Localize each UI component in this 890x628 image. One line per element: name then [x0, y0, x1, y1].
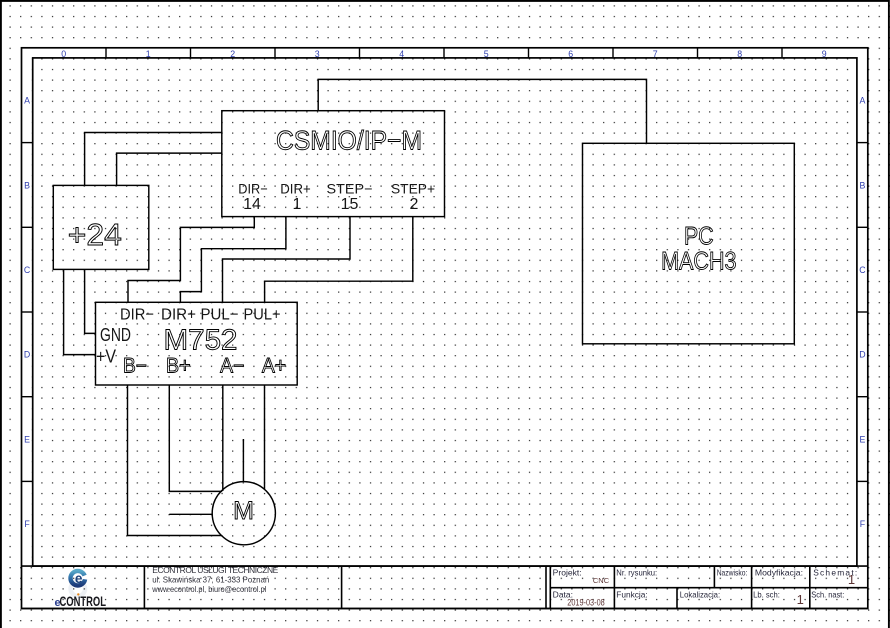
svg-text:M: M — [233, 497, 254, 525]
wire CSMIO left pin2 to +24 top — [117, 153, 222, 185]
svg-text:ul. Skawińska 37, 61-333 Pozna: ul. Skawińska 37, 61-333 Poznań — [152, 574, 269, 584]
svg-text:A: A — [859, 96, 865, 106]
wire M752 A+ to motor — [264, 385, 266, 489]
svg-text:Lb. sch:: Lb. sch: — [753, 590, 780, 600]
svg-text:D: D — [859, 350, 865, 360]
svg-text:ECONTROL USŁUGI TECHNICZNE: ECONTROL USŁUGI TECHNICZNE — [152, 565, 278, 575]
wire M752 A- to motor — [222, 385, 224, 491]
svg-text:PUL+: PUL+ — [244, 307, 281, 324]
wire +24 bottom to M752 GND — [85, 269, 96, 333]
svg-text:B: B — [24, 180, 30, 190]
svg-text:3: 3 — [315, 49, 320, 59]
svg-text:Projekt:: Projekt: — [553, 567, 582, 577]
ruler band mask — [20, 46, 867, 565]
svg-text:F: F — [860, 519, 866, 529]
svg-text:C: C — [859, 265, 866, 275]
svg-text:B+: B+ — [166, 355, 191, 378]
svg-text:M752: M752 — [164, 325, 238, 357]
svg-text:E: E — [859, 434, 865, 444]
wire M752 B- to motor — [128, 385, 222, 536]
wire STEP- pin15 to M752 PUL- — [223, 217, 351, 303]
ruler labels — [24, 49, 866, 529]
driver U2 M752 box — [96, 302, 298, 385]
svg-text:6: 6 — [568, 49, 573, 59]
wire DIR+ pin1 to M752 DIR+ — [180, 217, 286, 303]
svg-text:Sch. nast:: Sch. nast: — [811, 590, 844, 600]
wire STEP+ pin2 to M752 PUL+ — [265, 217, 413, 303]
svg-text:Nr. rysunku:: Nr. rysunku: — [616, 567, 657, 577]
svg-text:1: 1 — [146, 49, 151, 59]
svg-text:CSMIO/IP−M: CSMIO/IP−M — [276, 126, 422, 156]
motor left terminal stub — [169, 513, 212, 515]
svg-text:2: 2 — [230, 49, 235, 59]
svg-text:7: 7 — [653, 49, 658, 59]
ruler ticks — [22, 48, 868, 482]
svg-text:A: A — [24, 96, 30, 106]
logo eCONTROL — [55, 571, 107, 609]
svg-text:A+: A+ — [262, 355, 286, 378]
wire CSMIO top to PC — [318, 79, 646, 143]
motor top terminal stub — [242, 439, 244, 482]
motor M1 circle — [212, 482, 275, 545]
svg-text:0: 0 — [61, 49, 66, 59]
svg-text:Nazwisko:: Nazwisko: — [717, 567, 748, 577]
svg-text:STEP+: STEP+ — [391, 181, 435, 197]
svg-text:1: 1 — [797, 592, 804, 607]
svg-text:C: C — [24, 265, 31, 275]
svg-text:A−: A− — [220, 355, 244, 378]
svg-text:14: 14 — [243, 196, 261, 213]
svg-text:CONTROL: CONTROL — [60, 593, 107, 609]
controller U1 CSMIO/IP-M box — [222, 111, 445, 217]
svg-text:STEP−: STEP− — [327, 181, 373, 197]
svg-text:B: B — [859, 180, 865, 190]
wire +24 bottom to M752 +V — [64, 269, 96, 354]
svg-text:DIR+: DIR+ — [161, 307, 196, 324]
svg-text:MACH3: MACH3 — [661, 248, 736, 276]
svg-text:Modyfikacja:: Modyfikacja: — [755, 567, 803, 577]
svg-text:E: E — [24, 434, 30, 444]
svg-text:5: 5 — [484, 49, 489, 59]
svg-text:GND: GND — [100, 325, 131, 345]
svg-text:www.econtrol.pl, biuro@econtro: www.econtrol.pl, biuro@econtrol.pl — [151, 584, 266, 594]
title block — [22, 566, 868, 608]
svg-text:8: 8 — [737, 49, 742, 59]
svg-text:+V: +V — [96, 347, 116, 367]
computer PC MACH3 box — [583, 143, 795, 343]
svg-text:9: 9 — [822, 49, 827, 59]
svg-text:F: F — [24, 519, 30, 529]
svg-text:PUL−: PUL− — [201, 307, 239, 324]
wire M752 B+ to motor — [169, 385, 222, 491]
svg-text:1: 1 — [293, 196, 302, 213]
power supply +24 box — [53, 185, 149, 269]
schematic text — [68, 126, 737, 526]
svg-text:CNC: CNC — [593, 576, 610, 585]
svg-text:4: 4 — [399, 49, 404, 59]
svg-text:DIR+: DIR+ — [280, 181, 311, 197]
svg-text:1: 1 — [848, 572, 855, 587]
svg-text:PC: PC — [684, 223, 714, 251]
svg-text:Lokalizacja:: Lokalizacja: — [680, 590, 720, 600]
svg-text:+24: +24 — [68, 217, 122, 252]
wire DIR- pin14 to M752 DIR- — [128, 217, 254, 303]
svg-text:DIR−: DIR− — [238, 181, 268, 197]
svg-text:Funkcja:: Funkcja: — [616, 590, 647, 600]
svg-text:B−: B− — [123, 355, 147, 378]
svg-text:DIR−: DIR− — [120, 307, 154, 324]
svg-text:2019-03-08: 2019-03-08 — [567, 598, 604, 609]
wire CSMIO left pin to +24 top — [85, 133, 222, 186]
svg-text:2: 2 — [410, 196, 419, 213]
svg-text:15: 15 — [341, 196, 359, 213]
company address — [151, 565, 278, 594]
svg-text:D: D — [24, 350, 30, 360]
